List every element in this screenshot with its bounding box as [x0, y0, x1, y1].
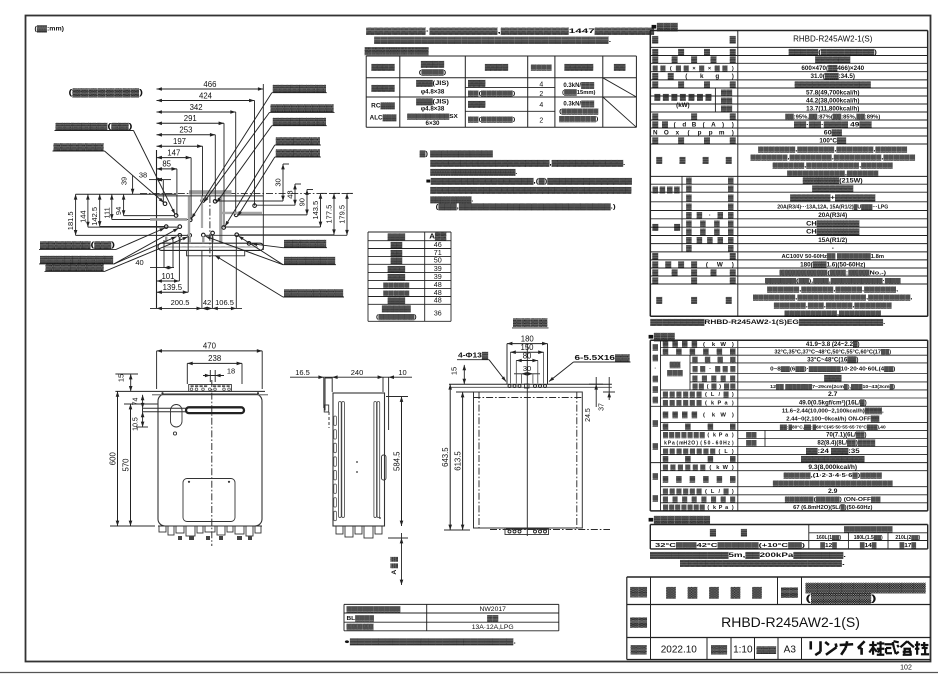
svg-text:▓: ▓: [663, 412, 669, 419]
svg-text:142.5: 142.5: [90, 207, 99, 226]
svg-text:▓: ▓: [726, 156, 732, 164]
svg-text:▓: ▓: [652, 260, 658, 268]
svg-text:▓▓▓▓▓▓▓▓▓▓▓▓▓▓▓▓▓▓▓.: ▓▓▓▓▓▓▓▓▓▓▓▓▓▓▓▓▓▓▓.: [680, 559, 845, 567]
svg-text:15: 15: [450, 367, 459, 375]
svg-text:CH▓▓▓▓▓▓▓▓: CH▓▓▓▓▓▓▓▓: [806, 219, 860, 227]
svg-text:▓: ▓: [653, 473, 659, 480]
svg-text:▓: ▓: [714, 229, 720, 236]
dimension 570 (front): [130, 404, 132, 526]
svg-text:▓: ▓: [718, 212, 724, 219]
svg-text:(▓▓▓▓▓▓▓): (▓▓▓▓▓▓▓): [376, 313, 417, 320]
svg-text:2: 2: [539, 118, 543, 125]
svg-text:▓: ▓: [730, 268, 736, 276]
svg-text:▓: ▓: [688, 587, 698, 599]
svg-text:▓: ▓: [652, 276, 658, 284]
svg-text:P: P: [719, 505, 723, 511]
svg-text:94: 94: [114, 207, 123, 215]
svg-text:▓: ▓: [694, 504, 699, 511]
svg-text:▓: ▓: [663, 456, 669, 463]
top view center vertical dash-dot: [209, 196, 211, 257]
svg-text:▓: ▓: [685, 464, 691, 471]
svg-text:▓: ▓: [653, 65, 659, 72]
svg-text:▓: ▓: [697, 399, 703, 406]
svg-text:▓: ▓: [686, 237, 692, 244]
svg-text:▓: ▓: [706, 94, 712, 101]
svg-text:▓: ▓: [676, 65, 682, 72]
svg-text:▓▓▓: ▓▓▓: [757, 646, 778, 654]
svg-text:(▓▓▓▓▓▓▓: (▓▓▓▓▓▓▓: [559, 108, 599, 115]
svg-text:): ): [719, 384, 721, 390]
svg-text:▓: ▓: [681, 432, 686, 439]
svg-text:▓: ▓: [676, 349, 682, 356]
extension lines for bottom dims: [163, 240, 165, 268]
front view top small screws: [161, 392, 163, 394]
svg-text:▓: ▓: [711, 268, 717, 276]
svg-text:▓▓▓▓: ▓▓▓▓: [371, 85, 395, 92]
top view rear bracket grey bar: [189, 190, 232, 194]
svg-text:31.0(▓▓▓:34.5): 31.0(▓▓▓:34.5): [810, 72, 855, 80]
svg-text:▓: ▓: [711, 383, 716, 390]
svg-text:▓: ▓: [730, 252, 736, 260]
svg-text:▓: ▓: [663, 424, 669, 431]
svg-text:·: ·: [654, 366, 656, 372]
svg-text:38: 38: [139, 171, 147, 180]
svg-text:470: 470: [203, 342, 217, 351]
svg-text:13.7(11,800kcal/h): 13.7(11,800kcal/h): [806, 105, 859, 112]
svg-text:CH▓▓▓▓▓▓▓▓: CH▓▓▓▓▓▓▓▓: [806, 228, 860, 236]
svg-text:▓▓▓: ▓▓▓: [667, 370, 684, 377]
dimension 38: [157, 179, 164, 181]
svg-text:▓: ▓: [718, 237, 724, 244]
svg-text:▓: ▓: [653, 376, 659, 383]
dimension 200.5 / 42 / 106.5: [150, 307, 242, 309]
svg-text:■▓▓▓▓▓▓▓▓: ■▓▓▓▓▓▓▓▓: [648, 515, 711, 525]
side view bottom fittings: [336, 526, 343, 534]
grey pipe segment right: [222, 212, 262, 214]
svg-text:(: (: [707, 505, 709, 511]
top view unit left edge line: [156, 150, 158, 309]
svg-text:NW2017: NW2017: [479, 606, 506, 613]
svg-text:74: 74: [133, 398, 140, 406]
top view rear wall line: [157, 195, 264, 197]
svg-text:▓: ▓: [730, 56, 736, 64]
svg-text:424: 424: [199, 91, 213, 100]
svg-text:▓▓▓: ▓▓▓: [468, 80, 486, 87]
svg-text:0.3kN/▓▓▓: 0.3kN/▓▓▓: [563, 82, 594, 89]
svg-text:200.5: 200.5: [171, 298, 190, 307]
title block grid: [627, 576, 931, 578]
svg-text:▓: ▓: [663, 341, 669, 348]
svg-text:▓: ▓: [703, 349, 709, 356]
svg-text:▓▓▓▓▓▓▓): ▓▓▓▓▓▓▓): [559, 116, 598, 123]
svg-text:k: k: [713, 505, 716, 511]
svg-text:): ): [732, 433, 734, 439]
svg-text:111: 111: [102, 207, 111, 218]
dimension 143.5 (right stack): [320, 193, 322, 227]
svg-text:▓: ▓: [693, 464, 699, 471]
svg-text:▓: ▓: [663, 399, 669, 406]
svg-text:▓: ▓: [684, 65, 690, 72]
svg-text:6-5.5X16▓▓: 6-5.5X16▓▓: [575, 354, 631, 362]
svg-text:0.3kN/▓▓▓: 0.3kN/▓▓▓: [563, 101, 594, 108]
A-size dimension (side bottom): [401, 533, 403, 585]
side view left slot capsules: [339, 402, 342, 518]
svg-text:15: 15: [117, 374, 126, 382]
svg-text:80: 80: [523, 351, 532, 360]
dimension 111 (left stack): [111, 194, 113, 219]
dimension 179.5 (right stack): [346, 193, 348, 235]
svg-text:a: a: [725, 400, 729, 406]
svg-text:▓: ▓: [691, 56, 697, 64]
svg-text:6×30: 6×30: [426, 120, 440, 127]
rear bracket screws top: [508, 385, 511, 388]
svg-text:2.7: 2.7: [828, 391, 838, 398]
svg-text:g: g: [715, 73, 719, 80]
svg-text:▓▓:24 ▓▓▓:35: ▓▓:24 ▓▓▓:35: [806, 448, 860, 455]
svg-text:▓: ▓: [691, 296, 697, 304]
front view bottom small parts: [158, 525, 262, 527]
svg-text:▓: ▓: [697, 94, 703, 101]
svg-text:20A(R3/4): 20A(R3/4): [818, 212, 847, 219]
svg-text:▓: ▓: [652, 268, 658, 276]
svg-text:▓: ▓: [711, 496, 717, 503]
rear view top plate lines: [449, 383, 612, 385]
rear bottom screws: [508, 530, 511, 533]
svg-text:): ): [732, 121, 734, 128]
svg-text:▓: ▓: [674, 224, 680, 231]
svg-text:▓▓: ▓▓: [721, 89, 733, 96]
svg-text:▓▓▓: ▓▓▓: [388, 298, 406, 305]
svg-text:▓: ▓: [703, 156, 709, 164]
svg-text:▓: ▓: [653, 344, 659, 351]
svg-text:▓: ▓: [697, 391, 703, 398]
svg-text:30: 30: [523, 364, 531, 373]
svg-text:▓: ▓: [676, 391, 682, 398]
svg-text:13A·12A,LPG: 13A·12A,LPG: [472, 624, 514, 631]
svg-text:▓: ▓: [676, 399, 682, 406]
svg-text:2: 2: [539, 91, 543, 98]
svg-text:▓: ▓: [652, 252, 658, 260]
svg-text:▓: ▓: [675, 432, 680, 439]
svg-text:BL▓▓▓▓: BL▓▓▓▓: [347, 615, 375, 622]
svg-text:▓: ▓: [708, 424, 714, 431]
svg-text:▓▓: ▓▓: [781, 587, 798, 598]
svg-text:40: 40: [135, 258, 143, 267]
svg-text:▓: ▓: [669, 432, 674, 439]
svg-text:▓: ▓: [692, 341, 698, 348]
svg-text:42: 42: [203, 298, 211, 307]
svg-text:▓▓▓▓▓▓: ▓▓▓▓▓▓: [54, 143, 105, 151]
svg-text:18: 18: [227, 367, 235, 376]
svg-text:▓▓▓▓: ▓▓▓▓: [371, 64, 395, 71]
svg-text:▓: ▓: [692, 356, 698, 363]
dimension 142.5 (left stack): [99, 194, 101, 226]
svg-text:▓: ▓: [717, 476, 723, 483]
svg-text:▓: ▓: [663, 432, 668, 439]
svg-text:▓: ▓: [710, 529, 716, 537]
top view rear center dash-dot line: [140, 193, 352, 195]
svg-text:▓: ▓: [686, 229, 692, 236]
svg-text:×: ×: [692, 66, 696, 72]
svg-text:44.2(38,000kcal/h): 44.2(38,000kcal/h): [806, 97, 860, 104]
svg-text:): ): [732, 449, 734, 455]
svg-text:▓: ▓: [678, 80, 684, 88]
svg-text:▓: ▓: [672, 341, 678, 348]
svg-text:(: (: [705, 489, 707, 495]
svg-text:▓: ▓: [730, 112, 736, 120]
svg-text:▓: ▓: [666, 587, 676, 599]
svg-text:▓: ▓: [710, 448, 715, 455]
svg-text:-: -: [832, 245, 834, 252]
svg-text:k: k: [711, 400, 715, 406]
svg-text:342: 342: [190, 103, 203, 112]
svg-text:▓: ▓: [730, 383, 735, 390]
svg-text:147: 147: [167, 148, 180, 157]
dimension 466 (top stack): [157, 88, 264, 90]
svg-text:139.5: 139.5: [163, 283, 183, 292]
svg-text:85: 85: [162, 160, 171, 169]
svg-text:▓: ▓: [654, 94, 660, 101]
svg-text:▓: ▓: [670, 391, 676, 398]
svg-text:▓▓▓▓▓▓▓: ▓▓▓▓▓▓▓: [46, 263, 105, 271]
svg-text:): ): [732, 129, 734, 136]
svg-text:▓▓▓▓▓▓▓▓▓: ▓▓▓▓▓▓▓▓▓: [365, 46, 430, 55]
svg-text:▓: ▓: [652, 80, 658, 88]
svg-text:(▓▓▓,▓▓▓▓▓▓▓▓▓▓▓▓▓▓▓▓▓▓▓▓▓▓▓▓▓: (▓▓▓,▓▓▓▓▓▓▓▓▓▓▓▓▓▓▓▓▓▓▓▓▓▓▓▓▓.): [436, 204, 616, 211]
dimension 181.5 (left stack): [75, 194, 77, 235]
svg-text:▓: ▓: [693, 365, 698, 372]
top view front step box: [187, 250, 245, 255]
svg-text:▓: ▓: [688, 432, 693, 439]
svg-text:▓: ▓: [678, 136, 684, 144]
fixing table besu diagonal slashes: [603, 78, 637, 97]
company name Rinnai kabushikigaisha (drawn glyphs): [809, 641, 812, 649]
dimension 291 (top stack): [157, 122, 225, 124]
svg-text:▓: ▓: [705, 356, 711, 363]
svg-text:▓: ▓: [681, 504, 686, 511]
svg-text:20A(R3/4)···13A,12A, 15A(R1/2): 20A(R3/4)···13A,12A, 15A(R1/2)▓U▓▓▓···LP…: [777, 203, 888, 210]
svg-text:613.5: 613.5: [453, 451, 462, 471]
front view mounting plate line: [115, 390, 265, 392]
svg-text:▓: ▓: [690, 448, 695, 455]
svg-text:▓▓▓▓▓▓(▓▓▓▓▓) (ON-OFF▓▓: ▓▓▓▓▓▓(▓▓▓▓▓) (ON-OFF▓▓: [785, 496, 882, 503]
svg-text:▓: ▓: [665, 260, 671, 268]
svg-text:▓▓▓: ▓▓▓: [388, 234, 406, 241]
side view wall bracket: [324, 378, 326, 411]
svg-text:▓▓▓▓▓▓▓▓▓RHBD-R245AW2-1(S)EG▓▓: ▓▓▓▓▓▓▓▓▓RHBD-R245AW2-1(S)EG▓▓▓▓▓▓▓▓▓▓▓▓…: [650, 318, 885, 326]
svg-text:▓▓▓▓▓▓▓▓▓▓▓5m,▓▓200kPa▓▓▓▓▓▓▓.: ▓▓▓▓▓▓▓▓▓▓▓5m,▓▓200kPa▓▓▓▓▓▓▓.: [650, 551, 846, 559]
svg-text:·: ·: [709, 366, 711, 372]
svg-text:▓: ▓: [724, 391, 730, 398]
svg-text:▓: ▓: [728, 203, 734, 210]
svg-text:▓▓▓▓▓▓▓▓: ▓▓▓▓▓▓▓▓: [284, 289, 344, 297]
svg-text:): ): [732, 489, 734, 495]
svg-text:4: 4: [539, 82, 543, 89]
svg-text:▓▓▓▓▓▓▓▓▓▓▓▓▓▓▓▓▓.: ▓▓▓▓▓▓▓▓▓▓▓▓▓▓▓▓▓.: [430, 169, 517, 176]
dimension 584.5 (side): [401, 397, 403, 527]
svg-text:▓: ▓: [741, 529, 747, 537]
svg-text:▓: ▓: [652, 48, 658, 56]
svg-text:33°C~48°C(16▓▓): 33°C~48°C(16▓▓): [807, 356, 858, 363]
svg-text:▓▓: ▓▓: [391, 250, 403, 257]
grey pipe vertical b: [201, 197, 203, 229]
svg-text:▓: ▓: [700, 432, 705, 439]
svg-text:(: (: [674, 121, 677, 128]
svg-text:60▓▓: 60▓▓: [824, 128, 842, 136]
svg-text:▓▓▓▓▓▓▓▓▓SX: ▓▓▓▓▓▓▓▓▓SX: [407, 113, 458, 120]
svg-text:▓: ▓: [730, 496, 736, 503]
dimension 613.5 (rear): [462, 392, 464, 530]
svg-text:φ4.8×38: φ4.8×38: [421, 89, 445, 96]
svg-text:▓: ▓: [678, 48, 684, 56]
svg-text:▓▓▓▓▓▓▓▓▓▓▓: ▓▓▓▓▓▓▓▓▓▓▓: [801, 456, 865, 463]
dimension 144 (left stack): [87, 194, 89, 227]
svg-text:▓: ▓: [656, 296, 662, 304]
svg-text:102: 102: [900, 665, 912, 672]
svg-text:▓▓: ▓▓: [746, 440, 758, 447]
svg-text:2.44~0(2,100~0kcal/h) ON-OFF▓▓: 2.44~0(2,100~0kcal/h) ON-OFF▓▓: [786, 416, 880, 423]
svg-text:a: a: [672, 441, 675, 447]
svg-text:k: k: [700, 73, 704, 80]
svg-text:▓: ▓: [653, 355, 659, 362]
svg-text:▓▓▓▓▓▓▓▓▓: ▓▓▓▓▓▓▓▓▓: [271, 104, 335, 112]
svg-text:▓: ▓: [717, 349, 723, 356]
svg-text:▓: ▓: [686, 194, 692, 201]
svg-text:4-Φ13▓: 4-Φ13▓: [458, 352, 489, 360]
svg-text:600×470(▓▓466)×240: 600×470(▓▓466)×240: [801, 64, 864, 72]
svg-text:▓▓:95%,▓▓:87%(▓▓:85%,▓▓:89%): ▓▓:95%,▓▓:87%(▓▓:85%,▓▓:89%): [785, 113, 880, 120]
svg-text:584.5: 584.5: [392, 451, 401, 471]
svg-text:▓▓▓▓▓▓▓,▓▓▓▓▓▓▓▓,▓▓▓▓▓▓▓▓▓,▓▓▓: ▓▓▓▓▓▓▓,▓▓▓▓▓▓▓▓,▓▓▓▓▓▓▓▓▓,▓▓▓▓▓▓: [751, 154, 917, 161]
svg-text:▓▓▓▓▓▓▓▓,▓▓▓▓▓▓▓▓▓▓▓▓▓,▓▓▓▓▓▓▓: ▓▓▓▓▓▓▓▓,▓▓▓▓▓▓▓▓▓▓▓▓▓,▓▓▓▓▓▓▓▓,: [753, 294, 913, 301]
svg-text:): ): [732, 66, 734, 72]
svg-text:): ): [696, 441, 698, 447]
svg-text:▓: ▓: [697, 237, 703, 244]
svg-text:▓: ▓: [730, 456, 736, 463]
svg-text:▓▓: ▓▓: [746, 432, 758, 439]
svg-text:×: ×: [708, 66, 712, 72]
svg-text:▓: ▓: [652, 56, 658, 64]
svg-text:▓: ▓: [652, 224, 658, 231]
svg-text:▓: ▓: [702, 375, 708, 382]
svg-text:180L(1.5▓▓): 180L(1.5▓▓): [854, 534, 883, 541]
capacity table grid: [650, 339, 927, 341]
svg-text:A▓▓: A▓▓: [390, 555, 398, 574]
svg-text:240: 240: [351, 368, 364, 377]
top view unit right edge line: [262, 84, 264, 250]
svg-text:▓▓▓▓▓: ▓▓▓▓▓: [284, 240, 327, 248]
dimension 16.5 / 240 / 10 (side top): [290, 376, 412, 378]
svg-text:36: 36: [434, 311, 442, 318]
svg-text:▓: ▓: [653, 386, 659, 393]
svg-text:▓: ▓: [685, 456, 691, 463]
svg-text:▓: ▓: [686, 220, 692, 227]
svg-text:A3: A3: [784, 644, 797, 655]
svg-text:▓: ▓: [663, 391, 669, 398]
svg-text:37: 37: [599, 403, 606, 411]
dimension 197 (top stack): [157, 145, 203, 147]
svg-text:▓▓▓▓▓,(1·2·3·4·5·6▓)▓▓▓▓: ▓▓▓▓▓,(1·2·3·4·5·6▓)▓▓▓▓: [784, 472, 884, 479]
svg-text:210L(2▓▓): 210L(2▓▓): [895, 534, 920, 541]
svg-text:W: W: [717, 261, 723, 268]
svg-text:643.5: 643.5: [441, 447, 450, 467]
dimension 342 (top stack): [157, 111, 236, 113]
svg-text:(: (: [703, 413, 705, 419]
bottom page rule: [0, 672, 938, 674]
svg-text:39: 39: [120, 177, 129, 185]
svg-text:▓▓▓▓▓▓▓: ▓▓▓▓▓▓▓: [812, 185, 854, 193]
svg-text:B: B: [692, 121, 697, 128]
svg-text:▓▓:▓80°C,▓▓:▓60°C(45·50·55·65·: ▓▓:▓80°C,▓▓:▓60°C(45·50·55·65·70°C▓▓▓),4…: [780, 424, 886, 431]
svg-text:▓▓▓▓▓▓: ▓▓▓▓▓▓: [273, 85, 328, 93]
svg-text:▓▓▓▓▓▓,▓▓▓▓▓▓▓▓▓▓,▓▓▓▓▓▓: ▓▓▓▓▓▓,▓▓▓▓▓▓▓▓▓▓,▓▓▓▓▓▓: [773, 162, 894, 169]
svg-text:▓: ▓: [731, 587, 741, 599]
front view body: [158, 394, 262, 526]
front view small oval part: [171, 405, 183, 428]
svg-text:(: (: [687, 129, 690, 136]
svg-text:▓▓▓▓▓▓▓+▓▓▓▓▓▓▓: ▓▓▓▓▓▓▓+▓▓▓▓▓▓▓: [790, 193, 876, 201]
grey pipe segment under band: [165, 246, 258, 248]
svg-text:L: L: [724, 449, 728, 455]
svg-text:▓: ▓: [686, 245, 692, 252]
svg-text:L: L: [711, 489, 715, 495]
svg-text:▓▓: ▓▓: [614, 64, 626, 71]
svg-text:▓: ▓: [704, 136, 710, 144]
dimension 18 (front): [203, 375, 224, 377]
svg-text:▓: ▓: [678, 464, 684, 471]
svg-text:181.5: 181.5: [66, 211, 75, 230]
svg-text:▓: ▓: [694, 432, 699, 439]
dimension 94 (left stack): [123, 194, 125, 215]
svg-text:▓▓▓: ▓▓▓: [388, 274, 406, 281]
svg-text:k: k: [716, 465, 720, 471]
svg-text:(▓▓▓▓▓▓▓▓): (▓▓▓▓▓▓▓▓): [69, 87, 144, 98]
title block row1 dividers: [777, 577, 779, 605]
svg-text:▓: ▓: [663, 476, 669, 483]
svg-text:▓▓▓▓▓▓▓·▓▓▓▓▓▓▓▓,▓▓▓▓▓▓▓▓1447▓: ▓▓▓▓▓▓▓·▓▓▓▓▓▓▓▓,▓▓▓▓▓▓▓▓1447▓▓▓▓▓▓▓: [366, 27, 654, 35]
svg-text:▓: ▓: [711, 375, 717, 382]
svg-text:5: 5: [704, 441, 707, 447]
svg-text:(: (: [709, 465, 711, 471]
svg-text:▓: ▓: [724, 383, 729, 390]
dimension 90 (right stack): [306, 190, 308, 215]
svg-text:▓: ▓: [700, 504, 705, 511]
svg-text:▓14▓: ▓14▓: [860, 542, 877, 549]
svg-text:4: 4: [539, 102, 543, 109]
connection port markers: [163, 202, 167, 206]
svg-text:▓: ▓: [730, 48, 736, 56]
svg-text:▓: ▓: [707, 237, 713, 244]
svg-text:▓: ▓: [663, 504, 668, 511]
dimension 643.5 (rear): [449, 384, 451, 530]
svg-text:▓: ▓: [683, 448, 688, 455]
svg-text:2022.10: 2022.10: [661, 644, 698, 655]
rear view body: [474, 392, 583, 528]
svg-text:▓: ▓: [724, 488, 730, 495]
svg-text:▓▓: ▓▓: [670, 362, 682, 369]
svg-text:a: a: [725, 433, 729, 439]
svg-text:▓▓▓▓▓▓▓(215W): ▓▓▓▓▓▓▓(215W): [803, 177, 863, 185]
svg-text:▓: ▓: [721, 375, 727, 382]
svg-text:▓: ▓: [728, 220, 734, 227]
svg-text:▓: ▓: [730, 35, 736, 43]
svg-text:▓▓▓▓▓▓▓▓▓: ▓▓▓▓▓▓▓▓▓: [40, 256, 114, 264]
svg-text:▓: ▓: [676, 488, 682, 495]
rear view inner dash-dot border: [474, 397, 583, 399]
svg-text:AC100V 50-60Hz▓▓ ▓▓▓▓▓▓▓▓1.8m: AC100V 50-60Hz▓▓ ▓▓▓▓▓▓▓▓1.8m: [781, 253, 884, 260]
side view right bump: [382, 455, 387, 480]
svg-text:(▓▓▓15mm): (▓▓▓15mm): [562, 89, 595, 96]
